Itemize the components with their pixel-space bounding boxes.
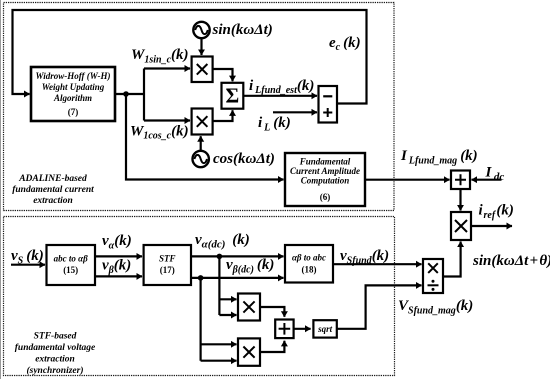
node: junction on v_beta(dc): [198, 275, 204, 281]
svg-text:(15): (15): [63, 265, 78, 275]
wire: lower multiplier to sigma: [213, 110, 233, 121]
wire: alpha squarer to adder: [260, 307, 284, 317]
wire: v_beta: [95, 275, 142, 277]
svg-text:Fundamental: Fundamental: [299, 157, 351, 167]
svg-text:vα(k): vα(k): [102, 233, 132, 252]
wire: v_Sfund to divider: [333, 263, 422, 265]
summer U2: sigma block: [222, 83, 244, 109]
op block U4: fundamental current amplitude computation: [285, 153, 365, 206]
adder U11: plus box: [275, 320, 293, 339]
node: junction on W-H output: [123, 91, 129, 97]
wire: to upper multiplier: [144, 67, 190, 69]
svg-text:Algorithm: Algorithm: [53, 93, 92, 103]
multiplier U6: i_ref output multiplier: [451, 212, 471, 240]
wire: I_dc input: [472, 179, 502, 181]
svg-text:Current Amplitude: Current Amplitude: [290, 166, 360, 176]
multiplier M4: beta squarer: [238, 338, 260, 365]
svg-text:Weight Updating: Weight Updating: [42, 82, 105, 92]
wire: to lower multiplier: [144, 119, 190, 121]
wire: divider output up to multiplier: [443, 242, 461, 277]
svg-text:sin(kωΔt + θ): sin(kωΔt + θ): [472, 253, 550, 269]
wire: v_alpha: [95, 255, 142, 257]
wire: i_ref output: [471, 225, 512, 227]
wire: sigma output i_Lfund_est: [243, 95, 317, 97]
wire: beta squarer to adder: [260, 341, 284, 352]
oscillator: sin source: [193, 22, 209, 38]
svg-text:ADALINE-based: ADALINE-based: [18, 174, 87, 184]
svg-text:(synchronizer): (synchronizer): [26, 365, 83, 376]
multiplier M3: alpha squarer: [238, 294, 260, 321]
multiplier M2 (cos channel): [192, 109, 213, 135]
wire: sin source to upper multiplier: [200, 39, 202, 55]
ADALINE section label: [12, 174, 94, 206]
svg-text:STF-based: STF-based: [34, 332, 77, 342]
svg-text:Computation: Computation: [301, 176, 350, 186]
node: junction on v_alpha(dc): [217, 254, 223, 260]
divider U7: multiply/divide box: [423, 259, 443, 293]
wire: branch vertical to both multipliers: [143, 69, 145, 121]
wire: i_L input: [273, 111, 317, 113]
svg-text:abc to αβ: abc to αβ: [54, 254, 88, 264]
wire: e_c feedback loop from subtractor to W-H block: [13, 10, 367, 104]
dashed box: ADALINE section: [4, 3, 395, 211]
svg-text:sin(kωΔt): sin(kωΔt): [212, 22, 273, 38]
svg-text:extraction: extraction: [35, 355, 75, 365]
op block U10: alpha-beta to abc: [285, 245, 333, 283]
svg-text:αβ to abc: αβ to abc: [292, 253, 326, 263]
svg-text:STF: STF: [159, 254, 176, 264]
svg-text:(17): (17): [160, 265, 175, 275]
dashed box: STF section: [4, 217, 395, 376]
comparator U3: minus/plus subtractor: [319, 86, 338, 123]
wire: cos source to lower multiplier: [200, 136, 202, 150]
svg-text:(6): (6): [320, 192, 331, 202]
svg-text:fundamental voltage: fundamental voltage: [15, 343, 96, 353]
svg-text:(18): (18): [302, 265, 317, 275]
wire: amplitude computation output to adder: [365, 179, 450, 181]
wire: W-H output: [115, 93, 144, 95]
wire: upper multiplier to sigma: [213, 69, 233, 81]
wire: v_beta(dc) branch down to squarer: [200, 278, 202, 361]
svg-text:vβ(k): vβ(k): [102, 258, 131, 277]
svg-text:extraction: extraction: [33, 196, 73, 206]
wire: sqrt output to divider: [337, 285, 422, 328]
svg-text:(7): (7): [68, 107, 79, 117]
op block U1: Widrow-Hoff weight updating algorithm: [31, 67, 115, 121]
adder U5: plus box: [451, 171, 470, 190]
svg-text:Widrow-Hoff (W-H): Widrow-Hoff (W-H): [36, 71, 111, 81]
op block U8: abc to alpha-beta: [47, 245, 96, 285]
wire: v_alpha(dc) branch down to squarer: [218, 256, 220, 315]
op block U12: sqrt: [313, 320, 336, 337]
wire: adder to sqrt: [294, 328, 311, 330]
svg-text:sqrt: sqrt: [317, 324, 333, 334]
wire: v_beta(dc) to alpha-beta-to-abc: [191, 277, 284, 279]
oscillator: cos source: [193, 151, 209, 167]
op block U9: STF: [144, 245, 191, 285]
svg-text:cos(kωΔt): cos(kωΔt): [213, 151, 275, 167]
STF section label: [15, 332, 96, 377]
wire: v_S input: [11, 264, 45, 266]
wire: v_alpha(dc) to alpha-beta-to-abc: [191, 255, 284, 257]
svg-text:vS (k): vS (k): [11, 248, 44, 267]
svg-text:ec (k): ec (k): [329, 35, 361, 53]
multiplier M1 (sin channel): [192, 57, 213, 83]
svg-text:Σ: Σ: [226, 84, 240, 108]
wire: junction down to amplitude computation block: [126, 94, 284, 180]
wire: adder to output multiplier: [459, 189, 461, 211]
left edge gray line: [0, 0, 2, 379]
svg-text:fundamental current: fundamental current: [12, 185, 94, 195]
